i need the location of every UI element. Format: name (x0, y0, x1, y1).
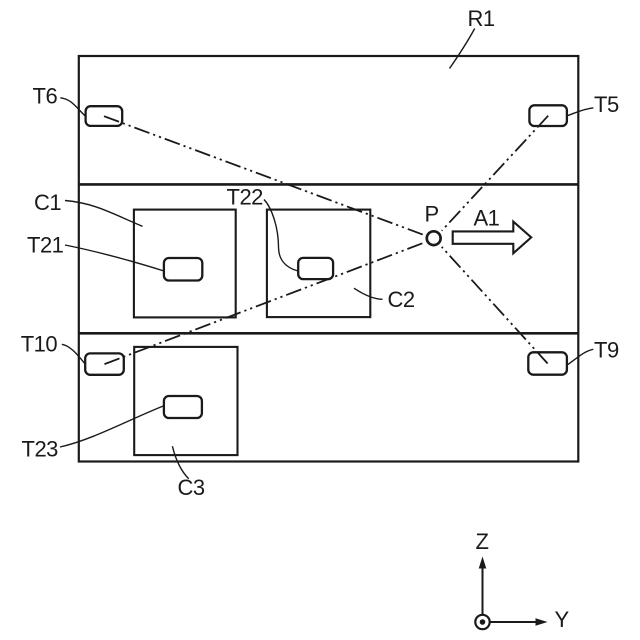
svg-text:T5: T5 (594, 92, 619, 117)
terminal T23 rounded box (164, 396, 202, 418)
phantom line T10 to P (105, 243, 425, 364)
phantom line T6 to P (104, 116, 424, 235)
phantom line T9 to P (442, 247, 548, 364)
terminal T9 rounded box (528, 352, 567, 374)
leader line for R1 (450, 29, 475, 69)
divider line between band 2 and band 3 (79, 332, 579, 335)
svg-text:R1: R1 (468, 6, 495, 31)
terminal T10 rounded box (85, 353, 124, 374)
svg-text:C3: C3 (178, 475, 205, 500)
terminal T6 rounded box (86, 106, 123, 126)
terminal T5 rounded box (529, 105, 567, 126)
svg-text:P: P (425, 201, 439, 226)
leader line for T6 (60, 98, 85, 117)
leader line for T22 (264, 200, 298, 272)
cell C2 square (267, 210, 370, 318)
svg-text:T9: T9 (594, 337, 619, 362)
axis Z line (482, 567, 484, 614)
svg-text:T22: T22 (227, 184, 264, 209)
phantom line T5 to P (442, 116, 548, 231)
terminal T22 rounded box (298, 258, 333, 279)
svg-text:T21: T21 (27, 233, 64, 258)
svg-text:T23: T23 (22, 436, 59, 461)
leader line for T23 (60, 406, 165, 448)
axis Y arrowhead (536, 618, 548, 626)
coordinate axis origin dot (480, 619, 486, 625)
region R1 outer rectangle (79, 56, 579, 462)
axis Y line (490, 621, 537, 623)
leader line for T10 (62, 344, 86, 364)
leader line for C3 (172, 446, 188, 479)
svg-text:T10: T10 (21, 331, 58, 356)
leader line for T9 (568, 349, 593, 364)
svg-text:Z: Z (476, 529, 489, 554)
cell C1 square (134, 210, 236, 318)
terminal T21 rounded box (164, 258, 202, 281)
leader line for T21 (65, 245, 164, 271)
coordinate axis origin circle (475, 615, 489, 629)
arrow A1 (453, 222, 532, 254)
svg-text:T6: T6 (33, 83, 58, 108)
svg-text:A1: A1 (474, 206, 500, 231)
point P circle (427, 231, 441, 245)
leader line for C2 (354, 288, 383, 299)
leader line for T5 (567, 108, 594, 116)
axis Z arrowhead (479, 557, 487, 569)
leader line for C1 (65, 201, 143, 227)
svg-text:C1: C1 (34, 190, 61, 215)
divider line between band 1 and band 2 (79, 183, 579, 186)
svg-text:C2: C2 (388, 287, 415, 312)
svg-text:Y: Y (555, 607, 570, 632)
cell C3 square (134, 347, 237, 455)
